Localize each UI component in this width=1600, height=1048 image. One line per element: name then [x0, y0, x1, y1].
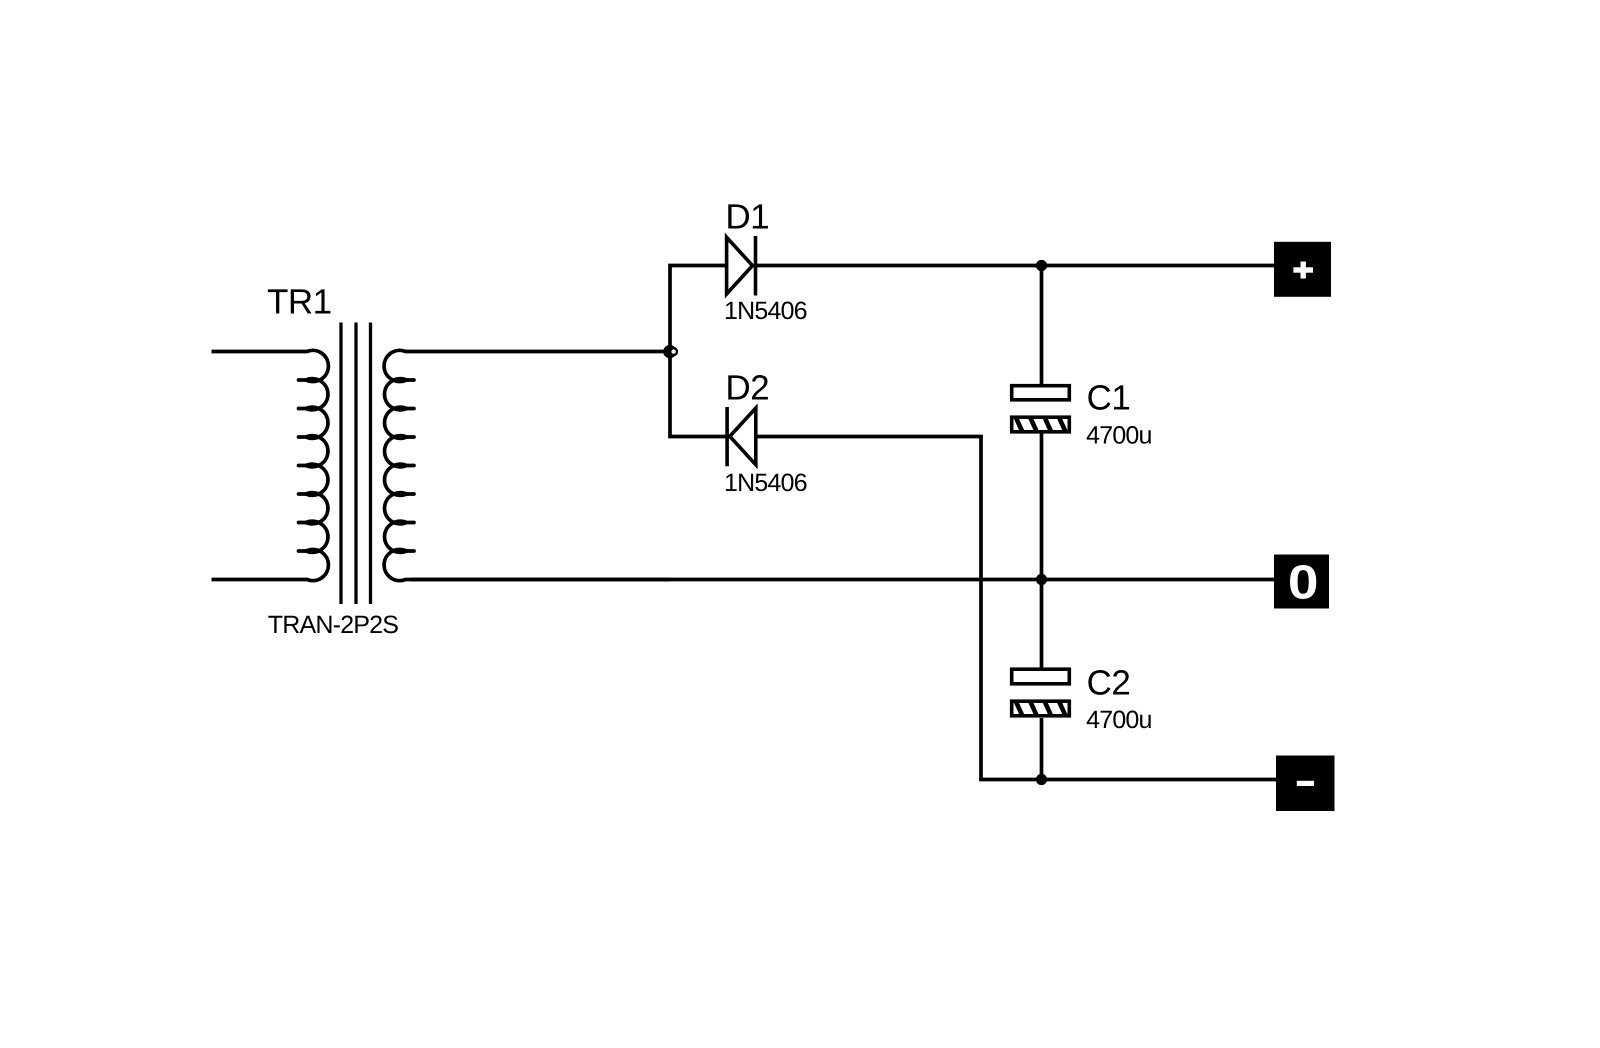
- wire: D1 cathode to terminal +, top rail y=265.5: [756, 264, 1275, 268]
- label 1N5406 (D1): [726, 302, 807, 320]
- transformer TR1 primary winding (with left lead wires): [212, 350, 329, 580]
- diode D1 (anode left, pointing right): [727, 236, 756, 296]
- label TR1: [268, 289, 331, 313]
- label 4700u (C2): [1087, 711, 1151, 729]
- node junction dot: negative rail / C2: [1036, 774, 1047, 785]
- wire: diode branch riser at x=670: [670, 266, 727, 437]
- label 1N5406 (D2): [726, 474, 807, 492]
- transformer TR1 primary winding cusp ticks: [299, 380, 307, 551]
- label D2: [728, 375, 768, 399]
- wire: capacitor chain vertical x=1041.5: [1040, 266, 1044, 780]
- node junction dot: 0 rail / C1-C2: [1036, 574, 1047, 585]
- terminal - (negative output box): [1276, 756, 1335, 812]
- label D1: [728, 204, 768, 228]
- label C1: [1088, 385, 1129, 410]
- label C2: [1088, 670, 1129, 695]
- wire: center-tap 0 rail y=579.5 to terminal 0: [411, 578, 1274, 582]
- capacitor C2 bottom plate (hatched): [1012, 701, 1080, 716]
- capacitor C1 bottom plate (hatched): [1012, 417, 1080, 432]
- node A junction dot with open-pin ring: [663, 345, 676, 358]
- transformer TR1 secondary winding cusp ticks: [407, 380, 415, 551]
- wire: D2 anode right, down at x=981 to negative rail y=779.5: [756, 437, 1276, 780]
- diode D2 (pointing left, cathode left): [727, 407, 756, 466]
- node junction dot: top rail / C1: [1036, 260, 1047, 271]
- capacitor C1 top plate: [1012, 386, 1070, 400]
- label TRAN-2P2S: [268, 616, 397, 634]
- terminal + (positive output box): [1274, 242, 1331, 297]
- capacitor C2 top plate: [1012, 669, 1070, 684]
- transformer TR1 core (3 lines): [341, 323, 371, 605]
- label 4700u (C1): [1087, 426, 1151, 444]
- terminal 0 (center tap output box): [1274, 555, 1329, 609]
- transformer TR1 secondary winding (top lead to node A): [384, 350, 670, 580]
